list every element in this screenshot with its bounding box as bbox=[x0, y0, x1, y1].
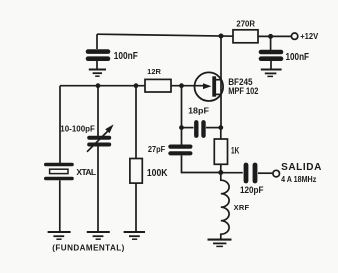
node 18pF right junction bbox=[218, 125, 223, 130]
transistor Q1 BF245/MPF102 body bbox=[195, 72, 224, 101]
node right 100nF junction bbox=[268, 34, 273, 39]
wire 270R to +12V terminal bbox=[258, 35, 291, 37]
svg-text:100nF: 100nF bbox=[114, 51, 138, 62]
svg-text:MPF 102: MPF 102 bbox=[228, 86, 258, 96]
wire right 100nF to ground bbox=[270, 61, 272, 69]
node gate junction bbox=[179, 83, 184, 88]
wire 18pF right lead bbox=[206, 127, 221, 129]
transistor Q1 drain stub bbox=[216, 79, 221, 81]
wire var-cap drop bbox=[97, 86, 99, 136]
resistor 270R bbox=[233, 30, 258, 43]
transistor Q1 source stub bbox=[216, 93, 221, 95]
svg-text:270R: 270R bbox=[236, 20, 255, 29]
transistor Q1 gate arrow bbox=[203, 83, 211, 89]
capacitor C 100nF right bbox=[261, 52, 281, 59]
svg-text:+12V: +12V bbox=[300, 31, 318, 41]
node 18pF left junction bbox=[179, 125, 184, 130]
svg-text:120pF: 120pF bbox=[240, 185, 264, 196]
capacitor variable arrow bbox=[87, 124, 114, 151]
wire 100K to ground bbox=[135, 183, 137, 231]
node 100K rail junction bbox=[134, 83, 139, 88]
svg-text:18pF: 18pF bbox=[188, 106, 209, 116]
resistor 1K bbox=[214, 139, 227, 164]
svg-text:100nF: 100nF bbox=[286, 52, 310, 63]
capacitor C 27pF bbox=[170, 147, 190, 154]
wire drain-source vertical bbox=[220, 36, 222, 128]
ground var-cap bbox=[87, 232, 110, 239]
crystal XTAL bbox=[46, 165, 72, 179]
+12V terminal bbox=[291, 33, 297, 39]
ground XRF bbox=[208, 240, 232, 247]
terminal SALIDA bbox=[273, 170, 280, 177]
capacitor C 120pF bbox=[246, 165, 255, 181]
wire 1K to bottom node bbox=[220, 164, 222, 172]
svg-text:(FUNDAMENTAL): (FUNDAMENTAL) bbox=[52, 243, 124, 252]
resistor 12R bbox=[145, 79, 171, 92]
wire 100K rail drop bbox=[135, 86, 137, 159]
wire left rail down from gate rail bbox=[59, 86, 61, 163]
wire 120pF to output terminal bbox=[258, 172, 272, 174]
wire 12R to gate bbox=[171, 85, 204, 87]
svg-text:4 A 18MHz: 4 A 18MHz bbox=[281, 175, 316, 184]
wire top supply rail bbox=[97, 34, 233, 36]
wire gate node vertical bbox=[181, 86, 183, 145]
ground 100K bbox=[124, 232, 145, 239]
wire left 100nF drop bbox=[96, 34, 98, 49]
capacitor C 18pF bbox=[196, 122, 203, 135]
node var-cap rail junction bbox=[96, 83, 101, 88]
wire right 100nF drop bbox=[270, 36, 272, 50]
ground left 100nF bbox=[89, 70, 106, 77]
svg-text:10-100pF: 10-100pF bbox=[60, 123, 95, 133]
wire 27pF bottom to node bbox=[182, 155, 221, 172]
wire XTAL to ground bbox=[59, 180, 61, 231]
ground XTAL bbox=[48, 232, 71, 239]
transistor Q1 channel bar bbox=[212, 76, 216, 96]
resistor 100K bbox=[130, 159, 142, 184]
inductor XRF bbox=[221, 173, 229, 239]
node drain junction bbox=[219, 34, 224, 39]
wire left 100nF to ground bbox=[96, 61, 98, 69]
svg-text:27pF: 27pF bbox=[148, 145, 166, 154]
node output junction bbox=[218, 170, 223, 175]
wire 18pF left lead bbox=[182, 127, 194, 129]
svg-text:XTAL: XTAL bbox=[76, 167, 96, 177]
svg-text:SALIDA: SALIDA bbox=[281, 162, 321, 173]
ground right 100nF bbox=[261, 70, 282, 77]
wire source to 1K bbox=[220, 128, 222, 139]
wire gate rail bbox=[60, 85, 145, 87]
svg-text:XRF: XRF bbox=[234, 203, 250, 212]
svg-text:12R: 12R bbox=[147, 67, 161, 76]
wire var-cap to ground bbox=[97, 147, 99, 232]
wire node to 120pF bbox=[221, 172, 243, 174]
svg-text:100K: 100K bbox=[147, 168, 168, 179]
svg-text:1K: 1K bbox=[231, 146, 240, 156]
capacitor variable 10-100pF bbox=[89, 138, 109, 145]
capacitor C 100nF left bbox=[88, 52, 108, 59]
